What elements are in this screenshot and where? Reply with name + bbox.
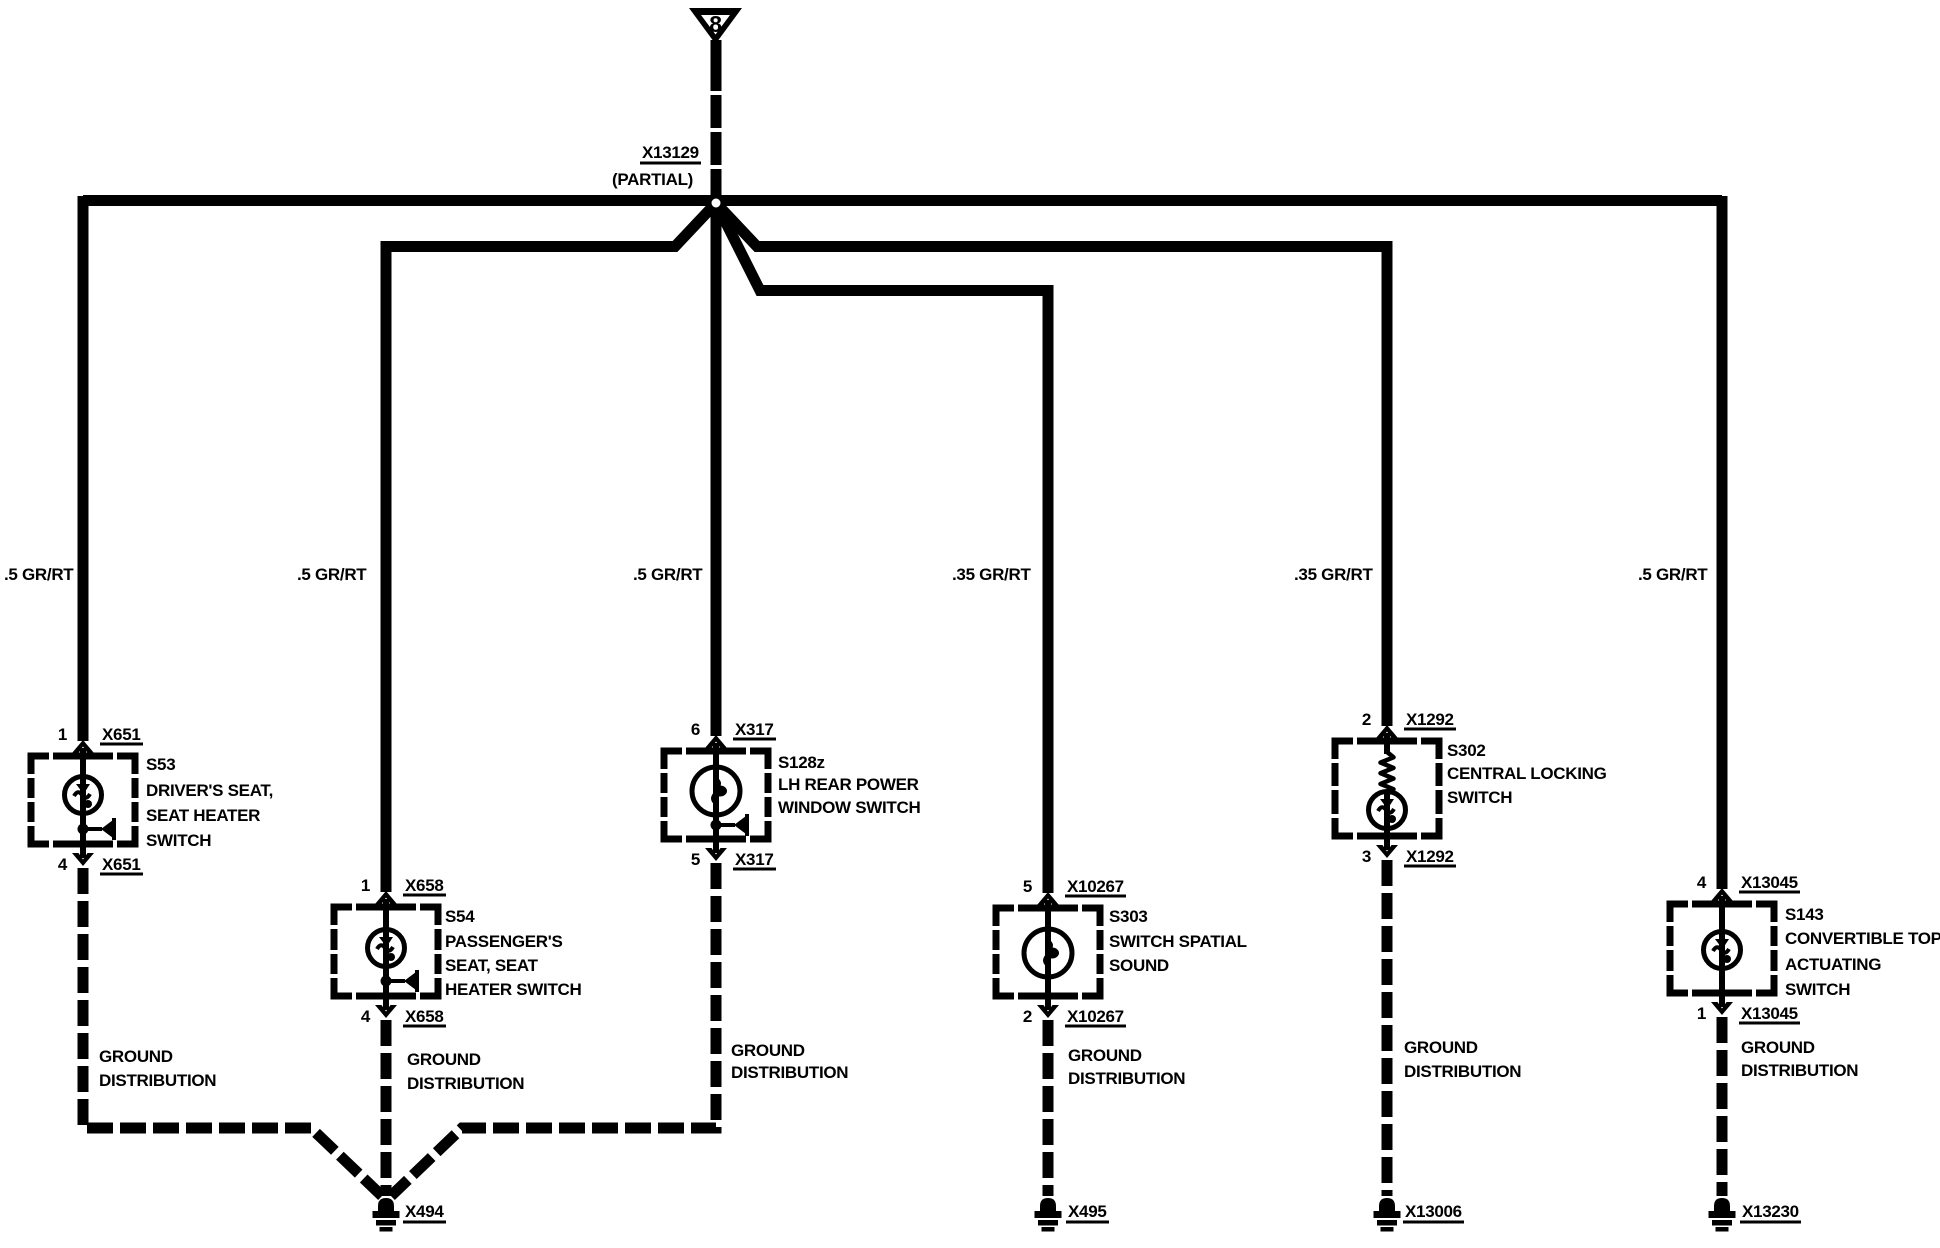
svg-text:.5 GR/RT: .5 GR/RT bbox=[4, 565, 74, 584]
pin 2 / connector X1292 (top of S302) bbox=[1362, 710, 1456, 729]
svg-text:4: 4 bbox=[58, 855, 68, 874]
component box S53 (dashed) bbox=[31, 756, 135, 844]
wire: pin arrow into S128z bbox=[705, 735, 727, 748]
svg-text:SWITCH: SWITCH bbox=[1447, 788, 1512, 807]
component box S128z (dashed) bbox=[664, 751, 768, 839]
svg-text:6: 6 bbox=[691, 720, 700, 739]
name label S303 bbox=[1109, 907, 1247, 975]
svg-text:X13006: X13006 bbox=[1405, 1202, 1462, 1221]
net label GROUND DISTRIBUTION (S53 branch) bbox=[99, 1047, 216, 1090]
wire: pin arrow into S54 bbox=[375, 891, 397, 904]
svg-text:S54: S54 bbox=[445, 907, 475, 926]
svg-text:S143: S143 bbox=[1785, 905, 1824, 924]
svg-text:X10267: X10267 bbox=[1067, 877, 1124, 896]
pin 4 / connector X13045 (top of S143) bbox=[1697, 873, 1800, 892]
net label GROUND DISTRIBUTION (S128z branch) bbox=[731, 1041, 848, 1082]
inner wire through S302 bbox=[1384, 733, 1390, 754]
actuator horn of S53 bbox=[78, 818, 117, 840]
net label GROUND DISTRIBUTION (S303 branch) bbox=[1068, 1046, 1185, 1088]
pin 5 / connector X10267 (top of S303) bbox=[1023, 877, 1126, 896]
svg-text:X13045: X13045 bbox=[1741, 873, 1798, 892]
wire: pin arrow out of S128z bbox=[705, 848, 727, 861]
wire: dashed ground from S128z to splice X494 bbox=[391, 863, 716, 1196]
svg-text:SWITCH: SWITCH bbox=[1785, 980, 1850, 999]
inner wire through S54 bbox=[383, 899, 389, 1010]
svg-text:.5 GR/RT: .5 GR/RT bbox=[297, 565, 367, 584]
svg-text:X1292: X1292 bbox=[1406, 710, 1454, 729]
net label GROUND DISTRIBUTION (S302 branch) bbox=[1404, 1038, 1521, 1081]
svg-text:X13045: X13045 bbox=[1741, 1004, 1798, 1023]
wire: dashed ground from S303 down to X495 bbox=[1043, 1020, 1054, 1196]
power feed triangle 8 bbox=[689, 8, 742, 58]
wire: pin arrow into S302 bbox=[1376, 725, 1398, 738]
svg-text:5: 5 bbox=[691, 850, 700, 869]
symbol circle of S143 bbox=[1704, 932, 1741, 969]
svg-text:.35 GR/RT: .35 GR/RT bbox=[1294, 565, 1373, 584]
actuator horn of S54 bbox=[381, 970, 420, 992]
svg-text:DISTRIBUTION: DISTRIBUTION bbox=[1068, 1069, 1185, 1088]
symbol circle of S53 bbox=[65, 777, 102, 814]
wire: pin arrow into S143 bbox=[1711, 888, 1733, 901]
svg-text:SWITCH: SWITCH bbox=[146, 831, 211, 850]
component box S303 (dashed) bbox=[996, 908, 1100, 996]
svg-text:GROUND: GROUND bbox=[407, 1050, 481, 1069]
svg-text:DRIVER'S SEAT,: DRIVER'S SEAT, bbox=[146, 781, 273, 800]
svg-text:DISTRIBUTION: DISTRIBUTION bbox=[1404, 1062, 1521, 1081]
pin 6 / connector X317 (top of S128z) bbox=[691, 720, 776, 739]
component box S143 (dashed) bbox=[1670, 904, 1774, 993]
wire: pin arrow out of S303 bbox=[1037, 1005, 1059, 1018]
net label GROUND DISTRIBUTION (S143 branch) bbox=[1741, 1038, 1858, 1080]
wire: pin arrow out of S54 bbox=[375, 1005, 397, 1018]
svg-text:SWITCH SPATIAL: SWITCH SPATIAL bbox=[1109, 932, 1247, 951]
name label S53 bbox=[146, 755, 273, 850]
svg-text:1: 1 bbox=[1697, 1004, 1706, 1023]
svg-text:DISTRIBUTION: DISTRIBUTION bbox=[731, 1063, 848, 1082]
ground label X495 bbox=[1066, 1202, 1109, 1222]
svg-text:DISTRIBUTION: DISTRIBUTION bbox=[1741, 1061, 1858, 1080]
name label S128z bbox=[778, 753, 920, 817]
pin 4 / connector X658 (bottom of S54) bbox=[361, 1007, 446, 1026]
svg-text:SEAT, SEAT: SEAT, SEAT bbox=[445, 956, 539, 975]
svg-text:ACTUATING: ACTUATING bbox=[1785, 955, 1881, 974]
wire: dashed ground from S53 to splice X494 bbox=[83, 868, 382, 1196]
wire: pin arrow out of S302 bbox=[1376, 845, 1398, 858]
svg-text:X651: X651 bbox=[102, 855, 141, 874]
svg-text:.5 GR/RT: .5 GR/RT bbox=[1638, 565, 1708, 584]
symbol circle of S303 bbox=[1024, 929, 1072, 977]
svg-text:SOUND: SOUND bbox=[1109, 956, 1169, 975]
svg-text:GROUND: GROUND bbox=[1404, 1038, 1478, 1057]
name label S54 bbox=[445, 907, 582, 999]
svg-text:2: 2 bbox=[1362, 710, 1371, 729]
symbol circle of S128z bbox=[692, 767, 740, 815]
name label S302 bbox=[1447, 741, 1607, 807]
wire: straight drop to S128z bbox=[711, 203, 722, 736]
symbol glyph of S302 bbox=[1378, 799, 1396, 823]
svg-text:SEAT HEATER: SEAT HEATER bbox=[146, 806, 260, 825]
ground X13006 bbox=[1374, 1198, 1401, 1232]
ground X495 bbox=[1035, 1198, 1062, 1232]
pin 2 / connector X10267 (bottom of S303) bbox=[1023, 1007, 1126, 1026]
svg-text:X651: X651 bbox=[102, 725, 141, 744]
pin 1 / connector X13045 (bottom of S143) bbox=[1697, 1004, 1800, 1023]
svg-text:1: 1 bbox=[361, 876, 370, 895]
svg-text:S53: S53 bbox=[146, 755, 175, 774]
pin 1 / connector X651 (top of S53) bbox=[58, 725, 143, 744]
wire: pin arrow into S53 bbox=[72, 740, 94, 753]
svg-text:5: 5 bbox=[1023, 877, 1032, 896]
svg-text:4: 4 bbox=[1697, 873, 1707, 892]
svg-text:X10267: X10267 bbox=[1067, 1007, 1124, 1026]
svg-text:WINDOW SWITCH: WINDOW SWITCH bbox=[778, 798, 920, 817]
svg-text:GROUND: GROUND bbox=[1068, 1046, 1142, 1065]
wire: pin arrow out of S143 bbox=[1711, 1002, 1733, 1015]
svg-text:.5 GR/RT: .5 GR/RT bbox=[633, 565, 703, 584]
wire: dashed ground from S54 straight down to X494 bbox=[381, 1020, 392, 1196]
svg-text:.35 GR/RT: .35 GR/RT bbox=[952, 565, 1031, 584]
svg-text:3: 3 bbox=[1362, 847, 1371, 866]
svg-text:1: 1 bbox=[58, 725, 67, 744]
svg-text:X1292: X1292 bbox=[1406, 847, 1454, 866]
wire: pin arrow into S303 bbox=[1037, 892, 1059, 905]
symbol glyph of S54 bbox=[377, 937, 395, 961]
name label S143 bbox=[1785, 905, 1940, 999]
svg-text:CENTRAL LOCKING: CENTRAL LOCKING bbox=[1447, 764, 1607, 783]
pin 1 / connector X658 (top of S54) bbox=[361, 876, 446, 895]
actuator horn of S128z bbox=[711, 814, 750, 836]
svg-text:4: 4 bbox=[361, 1007, 371, 1026]
svg-text:GROUND: GROUND bbox=[731, 1041, 805, 1060]
ground X494 bbox=[373, 1198, 400, 1232]
svg-text:X13230: X13230 bbox=[1742, 1202, 1799, 1221]
wire: pin arrow out of S53 bbox=[72, 853, 94, 866]
ground label X494 bbox=[403, 1202, 446, 1222]
symbol glyph of S303 bbox=[1045, 941, 1059, 965]
net label GROUND DISTRIBUTION (S54 branch) bbox=[407, 1050, 524, 1093]
component box S54 (dashed) bbox=[334, 907, 438, 996]
svg-text:X317: X317 bbox=[735, 850, 774, 869]
svg-text:X494: X494 bbox=[405, 1202, 444, 1221]
symbol circle of S54 bbox=[368, 930, 405, 967]
svg-text:DISTRIBUTION: DISTRIBUTION bbox=[99, 1071, 216, 1090]
ground X13230 bbox=[1709, 1198, 1736, 1232]
svg-text:S303: S303 bbox=[1109, 907, 1148, 926]
svg-text:S302: S302 bbox=[1447, 741, 1486, 760]
inner wire through S303 bbox=[1045, 900, 1051, 1010]
svg-text:PASSENGER'S: PASSENGER'S bbox=[445, 932, 563, 951]
svg-text:X658: X658 bbox=[405, 876, 444, 895]
ground label X13006 bbox=[1403, 1202, 1464, 1222]
svg-text:8: 8 bbox=[709, 11, 722, 37]
svg-text:X317: X317 bbox=[735, 720, 774, 739]
wire: dashed ground from S302 down to X13006 bbox=[1382, 860, 1393, 1196]
svg-text:(PARTIAL): (PARTIAL) bbox=[612, 170, 693, 189]
svg-text:CONVERTIBLE TOP: CONVERTIBLE TOP bbox=[1785, 929, 1940, 948]
splice node X13129 bbox=[709, 196, 723, 210]
svg-text:GROUND: GROUND bbox=[99, 1047, 173, 1066]
svg-text:HEATER SWITCH: HEATER SWITCH bbox=[445, 980, 582, 999]
component box S302 (dashed) bbox=[1335, 741, 1439, 836]
svg-text:2: 2 bbox=[1023, 1007, 1032, 1026]
wire: branch to S303 via bus y=290 bbox=[716, 203, 1048, 893]
svg-text:X658: X658 bbox=[405, 1007, 444, 1026]
wire: left drop to S53 (.5 GR/RT) bbox=[78, 196, 89, 741]
inner wire through S143 bbox=[1719, 896, 1725, 1007]
wire: branch to S302 via bus y=246 bbox=[716, 203, 1387, 726]
svg-text:GROUND: GROUND bbox=[1741, 1038, 1815, 1057]
connector label X13129 (PARTIAL) bbox=[612, 143, 701, 189]
wire: dashed ground from S143 down to X13230 bbox=[1717, 1017, 1728, 1196]
symbol glyph of S128z bbox=[713, 779, 727, 803]
svg-text:X495: X495 bbox=[1068, 1202, 1107, 1221]
wire: branch to S54 via bus y=246 bbox=[386, 203, 716, 892]
pin 5 / connector X317 (bottom of S128z) bbox=[691, 850, 776, 869]
pin 3 / connector X1292 (bottom of S302) bbox=[1362, 847, 1456, 866]
symbol circle of S302 bbox=[1369, 792, 1406, 829]
ground label X13230 bbox=[1740, 1202, 1801, 1222]
inner wire through S53 bbox=[80, 748, 86, 858]
svg-text:LH REAR POWER: LH REAR POWER bbox=[778, 775, 919, 794]
wire: dashed feed from triangle 8 down to splice bbox=[711, 58, 722, 196]
pin 4 / connector X651 (bottom of S53) bbox=[58, 855, 143, 874]
wire: right drop to S143 (.5 GR/RT) bbox=[1717, 196, 1728, 889]
coil inside S302 bbox=[1381, 752, 1394, 795]
wire: main bus y=200 from S53 column to S143 column bbox=[83, 195, 1722, 206]
symbol glyph of S53 bbox=[74, 784, 92, 808]
svg-text:X13129: X13129 bbox=[642, 143, 699, 162]
inner wire through S128z bbox=[713, 743, 719, 853]
symbol glyph of S143 bbox=[1713, 939, 1731, 963]
svg-text:S128z: S128z bbox=[778, 753, 825, 772]
svg-text:DISTRIBUTION: DISTRIBUTION bbox=[407, 1074, 524, 1093]
